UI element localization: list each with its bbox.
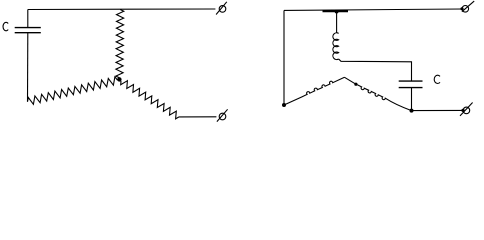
terminal (left figure bottom-right): circle xyxy=(219,113,226,120)
wire: capacitor top lead up to top rail xyxy=(27,10,29,28)
inductor L2 (left diagonal winding) xyxy=(284,77,345,105)
terminal (left figure bottom-right): slash xyxy=(217,109,228,121)
resistor winding R3 (star node to bottom-right lead) xyxy=(121,81,179,119)
wire: top rail from capacitor to top terminal xyxy=(28,8,216,11)
label C (left capacitor value) xyxy=(3,22,8,30)
wire: left rail down from top-left corner xyxy=(283,10,285,105)
inductor L1 (vertical winding) xyxy=(333,33,339,60)
junction dot: top rail tap xyxy=(335,10,339,14)
wire: apex to winding-joint dot xyxy=(345,77,356,84)
junction dot: at bottom terminal xyxy=(461,109,464,112)
wire: inductor L1 bottom to capacitor top xyxy=(339,59,412,81)
capacitor C (right): top plate xyxy=(399,80,423,82)
wire: thick overlap bar on top rail at winding tap xyxy=(323,10,349,12)
junction dot: left rail bottom xyxy=(282,103,286,107)
wire: top rail from top-left corner to top terminal xyxy=(284,9,462,10)
node: star point junction dot xyxy=(117,77,121,81)
terminal (right figure top-right): slash xyxy=(462,1,474,12)
wire: capacitor bottom lead to bottom junction xyxy=(411,88,413,111)
inductor L3 (right diagonal winding) xyxy=(356,84,412,110)
junction dot: at top terminal xyxy=(460,7,463,10)
terminal (right figure top-right): circle xyxy=(462,6,469,13)
terminal (phase, left figure top-right): circle xyxy=(219,6,226,13)
resistor winding R1 (vertical, top rail to star node) xyxy=(116,10,124,78)
resistor winding R2 (lower-left corner to star node) xyxy=(28,77,118,105)
terminal (right figure bottom-right): circle xyxy=(463,107,470,114)
label C (right capacitor value) xyxy=(434,75,440,83)
wire: capacitor bottom lead down to lower-left corner xyxy=(27,33,29,102)
terminal (right figure bottom-right): slash xyxy=(460,103,473,116)
junction dot: bottom junction xyxy=(410,109,414,113)
wire: tap lead down to inductor L1 xyxy=(336,12,338,33)
wire: bottom junction to bottom terminal xyxy=(412,109,464,111)
capacitor C (left): top plate xyxy=(15,27,41,29)
wire: bottom lead to bottom terminal xyxy=(179,116,216,118)
capacitor C (left): bottom plate xyxy=(15,32,41,34)
capacitor C (right): bottom plate xyxy=(399,87,423,89)
junction dot: winding joint xyxy=(354,83,357,86)
terminal (left figure top-right): slash xyxy=(216,2,227,15)
